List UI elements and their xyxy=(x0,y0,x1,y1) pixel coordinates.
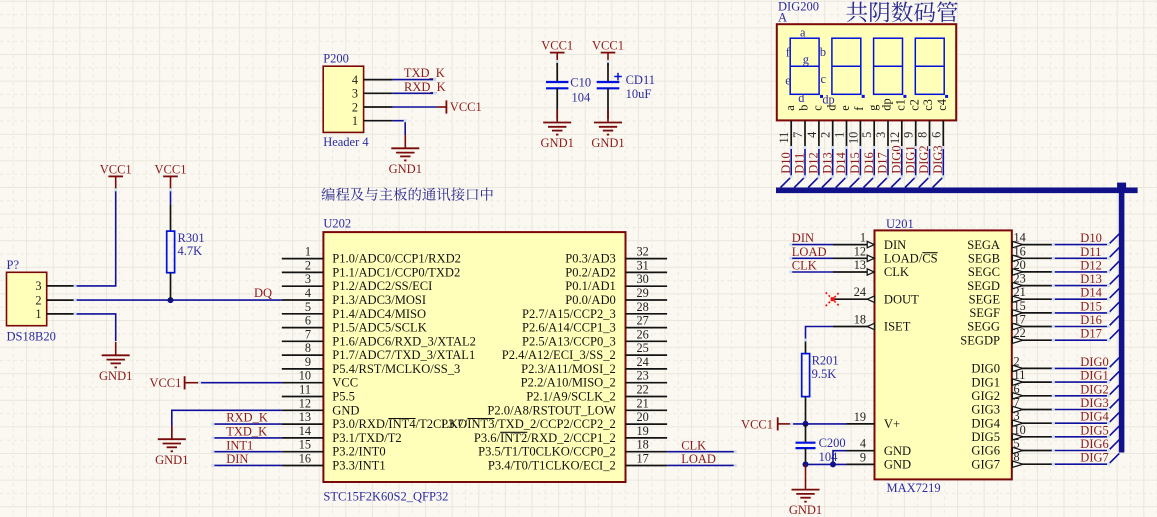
svg-text:P1.2/ADC2/SS/ECI: P1.2/ADC2/SS/ECI xyxy=(332,279,432,293)
svg-text:P2.7/A15/CCP2_3: P2.7/A15/CCP2_3 xyxy=(522,307,616,321)
svg-text:LOAD: LOAD xyxy=(792,245,827,259)
wire net D15 xyxy=(1053,312,1108,314)
wire net DIG3 xyxy=(1053,409,1108,411)
U202 pin 32 xyxy=(626,258,668,260)
svg-text:3: 3 xyxy=(352,87,358,101)
svg-text:DIN: DIN xyxy=(226,452,248,466)
svg-text:c: c xyxy=(820,72,826,86)
U202 pin 10 xyxy=(282,382,324,384)
svg-text:1: 1 xyxy=(35,307,41,321)
svg-text:10uF: 10uF xyxy=(626,87,652,101)
wire net DIG6 xyxy=(1053,450,1108,452)
digit 2 outline xyxy=(832,38,861,94)
wire LOAD to U201 xyxy=(791,257,833,259)
svg-text:RXD_K: RXD_K xyxy=(404,80,446,94)
C200 bottom lead xyxy=(805,448,807,464)
svg-text:25: 25 xyxy=(637,341,649,355)
C10 top lead xyxy=(556,61,558,82)
svg-text:13: 13 xyxy=(854,258,866,272)
svg-text:28: 28 xyxy=(637,300,649,314)
svg-text:DIG1: DIG1 xyxy=(1080,369,1108,383)
U201 pin 22 (SEGDP) xyxy=(1012,339,1054,341)
DIG200 pin 6 xyxy=(942,120,944,147)
R201 bottom lead xyxy=(805,397,807,424)
svg-text:10: 10 xyxy=(846,132,860,144)
U201 pin 10 (DIG5) xyxy=(1012,436,1054,438)
svg-text:D16: D16 xyxy=(1080,313,1102,327)
resistor R201 xyxy=(802,354,810,397)
svg-text:19: 19 xyxy=(637,424,649,438)
bus entry D17 xyxy=(877,177,888,188)
svg-text:A: A xyxy=(778,10,787,24)
svg-text:b: b xyxy=(797,105,811,111)
svg-text:9: 9 xyxy=(305,355,311,369)
svg-text:P1.0/ADC0/CCP1/RXD2: P1.0/ADC0/CCP1/RXD2 xyxy=(332,252,461,266)
wire net D13 xyxy=(1053,285,1108,287)
wire net DIG0 xyxy=(1053,367,1108,369)
svg-text:STC15F2K60S2_QFP32: STC15F2K60S2_QFP32 xyxy=(323,490,448,504)
svg-text:P0.2/AD2: P0.2/AD2 xyxy=(565,265,616,279)
capacitor CD11 plus xyxy=(614,76,622,78)
svg-text:GND1: GND1 xyxy=(541,136,574,150)
wire net DIG2 xyxy=(1053,395,1108,397)
svg-text:c1: c1 xyxy=(893,99,907,111)
svg-text:5: 5 xyxy=(860,132,874,138)
U202 pin 31 xyxy=(626,271,668,273)
svg-text:c4: c4 xyxy=(935,99,949,111)
svg-text:C200: C200 xyxy=(819,436,846,450)
svg-text:VCC: VCC xyxy=(332,376,358,390)
svg-text:TXD_K: TXD_K xyxy=(226,425,267,439)
svg-text:32: 32 xyxy=(637,245,649,259)
svg-text:2: 2 xyxy=(1014,354,1020,368)
svg-text:DIN: DIN xyxy=(792,231,814,245)
svg-text:18: 18 xyxy=(637,438,649,452)
U202 pin 5 xyxy=(282,313,324,315)
U202 pin 4 xyxy=(282,299,324,301)
svg-text:22: 22 xyxy=(1014,326,1026,340)
bus entry DIG6 xyxy=(1109,440,1120,451)
svg-text:5: 5 xyxy=(305,300,311,314)
svg-text:SEGDP: SEGDP xyxy=(960,333,1000,347)
P1 pin 3 xyxy=(47,285,75,287)
U202 pin 30 xyxy=(626,285,668,287)
svg-text:U201: U201 xyxy=(886,217,914,231)
U202 pin 20 xyxy=(626,423,668,425)
svg-text:GND1: GND1 xyxy=(789,503,822,517)
svg-text:P2.6/A14/CCP1_3: P2.6/A14/CCP1_3 xyxy=(522,321,616,335)
bus entry D16 xyxy=(864,177,875,188)
svg-text:DS18B20: DS18B20 xyxy=(7,330,56,344)
wire U201.4 down xyxy=(833,451,847,465)
bus entry D10 xyxy=(781,177,792,188)
svg-text:6: 6 xyxy=(929,132,943,138)
svg-text:21: 21 xyxy=(1014,285,1026,299)
DIG200 pin 12 xyxy=(901,120,903,147)
svg-text:5: 5 xyxy=(1014,437,1020,451)
wire net D16 xyxy=(873,148,875,177)
svg-text:Header 4: Header 4 xyxy=(323,135,369,149)
svg-text:18: 18 xyxy=(854,313,866,327)
U202 pin 28 xyxy=(626,313,668,315)
wire net D14 xyxy=(1053,298,1108,300)
DIG200 pin 9 xyxy=(915,120,917,147)
svg-text:R301: R301 xyxy=(178,231,205,245)
digit 1 outline xyxy=(790,38,819,94)
svg-text:DIG0: DIG0 xyxy=(889,145,903,173)
svg-text:DIG0: DIG0 xyxy=(1080,355,1108,369)
U201 pin 18 (ISET) xyxy=(833,326,875,328)
svg-text:R201: R201 xyxy=(812,354,839,368)
svg-text:P3.2/INT0: P3.2/INT0 xyxy=(332,445,385,459)
DIG200 pin 2 xyxy=(832,120,834,147)
svg-text:P5.4/RST/MCLKO/SS_3: P5.4/RST/MCLKO/SS_3 xyxy=(332,362,460,376)
svg-text:10: 10 xyxy=(1014,423,1026,437)
bus entry DIG0 xyxy=(891,177,902,188)
U202 pin 12 xyxy=(282,409,324,411)
svg-text:D10: D10 xyxy=(779,152,793,174)
svg-text:7: 7 xyxy=(791,132,805,138)
svg-text:P2.3/A11/MOSI_2: P2.3/A11/MOSI_2 xyxy=(521,362,616,376)
svg-text:13: 13 xyxy=(299,410,311,424)
wire P1.1 to GND1 xyxy=(75,314,116,341)
wire CLK to U201 xyxy=(791,271,833,273)
bus entry D17 xyxy=(1109,329,1120,340)
bus entry D16 xyxy=(1109,316,1120,327)
bus entry D15 xyxy=(850,177,861,188)
wire net D14 xyxy=(846,148,848,177)
svg-text:12: 12 xyxy=(854,244,866,258)
svg-text:GND1: GND1 xyxy=(389,162,422,176)
connector P200 body xyxy=(323,66,363,132)
U202 pin 11 xyxy=(282,396,324,398)
svg-text:P3.6/INT2/RXD_2/CCP1_2: P3.6/INT2/RXD_2/CCP1_2 xyxy=(474,431,616,445)
wire DIN to U202.16 xyxy=(213,464,282,466)
svg-text:P200: P200 xyxy=(323,52,349,66)
svg-text:11: 11 xyxy=(299,383,311,397)
svg-text:DIG2: DIG2 xyxy=(917,145,931,173)
svg-text:30: 30 xyxy=(637,272,649,286)
digit 1 dp dot xyxy=(820,95,823,98)
svg-text:d: d xyxy=(824,105,838,111)
ground GND1 (below P200) xyxy=(404,135,406,149)
svg-text:P0.3/AD3: P0.3/AD3 xyxy=(565,252,616,266)
junction GND pins xyxy=(830,461,836,467)
ground GND1 (below C10) xyxy=(556,109,558,123)
DIG200 pin 10 xyxy=(859,120,861,147)
svg-text:9: 9 xyxy=(860,450,866,464)
U201 pin 8 (GIG7) xyxy=(1012,463,1054,465)
svg-text:P1.6/ADC6/RXD_3/XTAL2: P1.6/ADC6/RXD_3/XTAL2 xyxy=(332,334,476,348)
U202 pin 16 xyxy=(282,465,324,467)
svg-text:D13: D13 xyxy=(1080,272,1102,286)
svg-text:P2.0/A8/RSTOUT_LOW: P2.0/A8/RSTOUT_LOW xyxy=(487,403,616,417)
P1 pin 2 xyxy=(47,299,75,301)
P200 pin 4 xyxy=(364,79,393,81)
bus entry D11 xyxy=(794,177,805,188)
bus entry D12 xyxy=(808,177,819,188)
U202 pin 17 xyxy=(626,465,668,467)
wire VCC1 to R301 xyxy=(170,190,172,205)
wire net DIG1 xyxy=(915,148,917,177)
U202 pin 8 xyxy=(282,354,324,356)
overline INT2 (pin19) xyxy=(500,431,527,433)
U201 pin 3 (DIG4) xyxy=(1012,422,1054,424)
svg-text:2: 2 xyxy=(819,132,833,138)
wire TXD_K xyxy=(393,79,435,81)
svg-text:GND: GND xyxy=(884,444,911,458)
bus entry DIG2 xyxy=(919,177,930,188)
svg-text:a: a xyxy=(783,105,797,111)
U202 pin 29 xyxy=(626,299,668,301)
svg-text:DIG1: DIG1 xyxy=(903,145,917,173)
svg-text:DIG5: DIG5 xyxy=(971,430,1000,444)
bus entry D13 xyxy=(822,177,833,188)
svg-text:DIG2: DIG2 xyxy=(1080,382,1108,396)
svg-text:VCC1: VCC1 xyxy=(149,376,181,390)
wire net D10 xyxy=(1053,244,1108,246)
DIG200 pin 3 xyxy=(887,120,889,147)
U201 pin 15 (SEGF) xyxy=(1012,312,1054,314)
ground GND1 (below P1) xyxy=(115,342,117,356)
CD11 bottom lead xyxy=(607,88,609,119)
svg-text:DIN: DIN xyxy=(884,238,906,252)
svg-text:4: 4 xyxy=(805,132,819,138)
wire ISET to R201 xyxy=(806,327,834,341)
U202 pin 19 xyxy=(626,437,668,439)
overline INT3 (pin20) xyxy=(467,418,494,420)
svg-text:D14: D14 xyxy=(834,152,848,174)
svg-text:9.5K: 9.5K xyxy=(812,367,837,381)
U202 pin 2 xyxy=(282,271,324,273)
svg-text:GND1: GND1 xyxy=(99,369,132,383)
svg-text:VCC1: VCC1 xyxy=(100,162,132,176)
wire net DIG7 xyxy=(1053,463,1108,465)
wire net D16 xyxy=(1053,326,1108,328)
svg-text:D17: D17 xyxy=(876,152,890,174)
svg-text:P3.3/INT1: P3.3/INT1 xyxy=(332,459,385,473)
U202 pin 24 xyxy=(626,368,668,370)
svg-text:14: 14 xyxy=(299,424,311,438)
svg-text:23: 23 xyxy=(1014,272,1026,286)
wire INT1 to U202.15 xyxy=(213,451,282,453)
svg-text:15: 15 xyxy=(299,438,311,452)
bus vertical xyxy=(1119,187,1125,453)
svg-text:D10: D10 xyxy=(1080,231,1102,245)
svg-text:8: 8 xyxy=(305,341,311,355)
svg-text:P0.1/AD1: P0.1/AD1 xyxy=(565,279,616,293)
junction R201/V+ xyxy=(803,421,809,427)
svg-text:P1.4/ADC4/MISO: P1.4/ADC4/MISO xyxy=(332,307,426,321)
bus entry D10 xyxy=(1109,234,1120,245)
wire TXD_K to U202.14 xyxy=(213,437,282,439)
svg-text:LOAD/CS: LOAD/CS xyxy=(884,252,938,266)
ground GND1 (below C200) xyxy=(805,476,807,490)
svg-text:20: 20 xyxy=(637,410,649,424)
P200 pin 1 xyxy=(364,120,393,122)
C10 bottom lead xyxy=(556,88,558,119)
wire U202.12 to GND1 xyxy=(172,410,282,437)
svg-text:VCC1: VCC1 xyxy=(155,162,187,176)
U201 pin 2 (DIG0) xyxy=(1012,367,1054,369)
IC U202 body xyxy=(323,232,625,482)
wire net D17 xyxy=(1053,339,1108,341)
svg-text:b: b xyxy=(820,45,826,59)
svg-text:V+: V+ xyxy=(884,417,900,431)
svg-text:12: 12 xyxy=(299,396,311,410)
digit 4 dp dot xyxy=(945,95,948,98)
svg-text:29: 29 xyxy=(637,286,649,300)
svg-text:c3: c3 xyxy=(921,99,935,111)
svg-text:SEGD: SEGD xyxy=(967,279,1000,293)
wire U201.9 GND xyxy=(806,463,847,465)
U202 pin 15 xyxy=(282,451,324,453)
ground GND1 (below CD11) xyxy=(607,109,609,123)
wire net D11 xyxy=(804,148,806,177)
svg-text:D12: D12 xyxy=(1080,258,1102,272)
svg-text:CLK: CLK xyxy=(792,259,817,273)
svg-text:GIG2: GIG2 xyxy=(971,389,1000,403)
svg-text:104: 104 xyxy=(819,450,839,464)
svg-text:P2.1/A9/SCLK_2: P2.1/A9/SCLK_2 xyxy=(526,390,616,404)
wire net DIG2 xyxy=(929,148,931,177)
digit 4 outline xyxy=(915,38,944,94)
capacitor C10 xyxy=(546,81,568,83)
ground GND1 (below U202 GND) xyxy=(171,426,173,440)
U201 pin 12 (LOAD/CS) xyxy=(833,257,875,259)
IC U201 body xyxy=(875,230,1012,479)
display DIG200 body xyxy=(777,24,956,120)
svg-text:19: 19 xyxy=(854,410,866,424)
svg-text:VCC1: VCC1 xyxy=(541,39,573,53)
svg-text:P5.5: P5.5 xyxy=(332,390,355,404)
U201 pin 1 (DIN) xyxy=(833,244,875,246)
svg-text:g: g xyxy=(866,105,880,111)
svg-text:CD11: CD11 xyxy=(626,73,655,87)
svg-text:6: 6 xyxy=(1014,382,1020,396)
R301 top lead xyxy=(170,205,172,232)
svg-text:14: 14 xyxy=(1014,231,1026,245)
wire DQ net xyxy=(75,299,282,301)
svg-text:7: 7 xyxy=(1014,396,1020,410)
DIG200 pin 11 xyxy=(790,120,792,147)
bus entry DIG1 xyxy=(905,177,916,188)
svg-text:VCC1: VCC1 xyxy=(741,417,773,431)
svg-text:22: 22 xyxy=(637,383,649,397)
svg-text:4: 4 xyxy=(352,73,358,87)
svg-text:d: d xyxy=(798,91,804,105)
U201 pin 23 (SEGD) xyxy=(1012,285,1054,287)
svg-text:dp: dp xyxy=(880,98,894,110)
svg-text:DIG4: DIG4 xyxy=(1080,410,1109,424)
svg-text:P2.4/A12/ECI_3/SS_2: P2.4/A12/ECI_3/SS_2 xyxy=(502,348,616,362)
U202 pin 14 xyxy=(282,437,324,439)
no-connect X on DOUT xyxy=(826,292,840,306)
svg-text:17: 17 xyxy=(1014,313,1026,327)
bus entry D11 xyxy=(1109,248,1120,259)
svg-text:2: 2 xyxy=(305,258,311,272)
svg-text:8: 8 xyxy=(1014,450,1020,464)
U202 pin 18 xyxy=(626,451,668,453)
svg-text:VCC1: VCC1 xyxy=(450,100,482,114)
grid hotspot dots xyxy=(789,243,792,246)
title text (Chinese): common-cathode display xyxy=(847,1,958,22)
svg-text:DIG0: DIG0 xyxy=(971,362,1000,376)
wire net D11 xyxy=(1053,257,1108,259)
svg-text:e: e xyxy=(838,105,852,111)
U201 pin 19 (V+) xyxy=(847,423,875,425)
svg-text:CLK: CLK xyxy=(884,265,909,279)
U202 pin 7 xyxy=(282,340,324,342)
svg-text:1: 1 xyxy=(860,231,866,245)
svg-text:104: 104 xyxy=(572,91,592,105)
connector P1 (DS18B20) body xyxy=(7,272,47,325)
wire net D13 xyxy=(832,148,834,177)
power VCC1 (right-facing at P200) xyxy=(437,106,446,108)
bus entry D14 xyxy=(1109,288,1120,299)
DIG200 pin 1 xyxy=(846,120,848,147)
svg-text:3: 3 xyxy=(305,272,311,286)
R201 top lead xyxy=(805,340,807,354)
wire RXD_K to U202.13 xyxy=(213,423,282,425)
svg-text:11: 11 xyxy=(777,132,791,144)
bus entry DIG3 xyxy=(1109,399,1120,410)
svg-text:DQ: DQ xyxy=(254,286,272,300)
svg-text:16: 16 xyxy=(1014,244,1026,258)
svg-text:GND1: GND1 xyxy=(155,453,188,467)
bus entry D13 xyxy=(1109,275,1120,286)
svg-text:1: 1 xyxy=(833,132,847,138)
svg-text:P3.1/TXD/T2: P3.1/TXD/T2 xyxy=(332,431,401,445)
capacitor CD11 xyxy=(597,81,620,83)
U202 pin 1 xyxy=(282,258,324,260)
P1 pin 1 xyxy=(47,313,75,315)
svg-text:C10: C10 xyxy=(570,76,591,90)
svg-text:D11: D11 xyxy=(1080,245,1101,259)
wire net DIG3 xyxy=(942,148,944,177)
wire VCC1 to U201.19 xyxy=(792,423,847,425)
svg-text:INT1: INT1 xyxy=(226,438,253,452)
svg-text:11: 11 xyxy=(1014,368,1026,382)
svg-text:D12: D12 xyxy=(807,152,821,174)
wire net D12 xyxy=(1053,271,1108,273)
svg-text:4.7K: 4.7K xyxy=(178,244,203,258)
svg-text:MAX7219: MAX7219 xyxy=(887,481,941,495)
svg-text:3: 3 xyxy=(1014,409,1020,423)
svg-text:9: 9 xyxy=(902,132,916,138)
U202 pin 22 xyxy=(626,396,668,398)
svg-text:DIG3: DIG3 xyxy=(1080,396,1108,410)
wire net DIG5 xyxy=(1053,436,1108,438)
bus entry DIG0 xyxy=(1109,358,1120,369)
svg-text:SEGE: SEGE xyxy=(969,292,1001,306)
DIG200 pin 4 xyxy=(818,120,820,147)
svg-text:7: 7 xyxy=(305,327,311,341)
wire DIN to U201 xyxy=(791,244,833,246)
wire U202.17 LOAD xyxy=(667,464,735,466)
svg-text:P3.7/INT3/TXD_2/CCP2/CCP2_2: P3.7/INT3/TXD_2/CCP2/CCP2_2 xyxy=(441,417,616,431)
svg-text:DOUT: DOUT xyxy=(884,292,919,306)
svg-text:15: 15 xyxy=(1014,299,1026,313)
bus entry DIG2 xyxy=(1109,385,1120,396)
svg-text:a: a xyxy=(800,26,806,40)
svg-text:DIG3: DIG3 xyxy=(931,145,945,173)
U201 pin 13 (CLK) xyxy=(833,271,875,273)
svg-text:SEGB: SEGB xyxy=(968,252,1000,266)
bus entry DIG7 xyxy=(1109,453,1120,464)
svg-text:SEGA: SEGA xyxy=(967,238,1000,252)
svg-text:3: 3 xyxy=(874,132,888,138)
